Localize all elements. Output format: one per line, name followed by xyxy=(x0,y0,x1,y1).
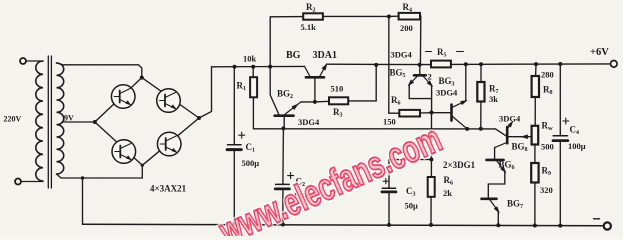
resistor R3 510 xyxy=(315,65,376,104)
wire bridge edge top-right xyxy=(142,78,199,118)
svg-text:150: 150 xyxy=(383,117,396,127)
node bridge bottom corner xyxy=(141,164,144,167)
svg-text:200: 200 xyxy=(400,23,413,33)
node R1 top xyxy=(251,65,255,69)
resistor R5 (series) xyxy=(431,61,451,68)
wire R2/R4 junction drop to R6 xyxy=(388,17,390,114)
svg-text:3k: 3k xyxy=(489,94,498,104)
svg-text:3DG4: 3DG4 xyxy=(391,50,413,60)
svg-text:3DG4: 3DG4 xyxy=(298,117,320,127)
node C1 tap xyxy=(233,65,237,69)
node R7 top xyxy=(479,62,483,66)
node C3 bottom xyxy=(387,223,391,227)
terminal output-bottom xyxy=(604,222,611,229)
node R2/R4 junction xyxy=(387,15,391,19)
terminal input-top xyxy=(20,58,26,64)
node C1 bottom xyxy=(232,222,236,226)
watermark www.elecfans.com xyxy=(213,118,448,240)
svg-text:10k: 10k xyxy=(243,53,257,63)
node R9 bottom xyxy=(533,224,537,228)
resistor R9 320 xyxy=(531,163,538,226)
wire BG2 emitter to node xyxy=(301,101,315,103)
node C4 top xyxy=(558,62,562,66)
capacitor C3 50u xyxy=(382,160,396,225)
node bridge left corner xyxy=(93,120,97,124)
transformer core xyxy=(47,56,49,188)
resistor R6 150 xyxy=(389,110,432,117)
node C3 branch xyxy=(429,158,433,162)
resistor R6 2k xyxy=(428,177,435,225)
svg-text:2k: 2k xyxy=(443,188,452,198)
transistor BG6 3DG1 xyxy=(487,160,509,198)
terminal +6V xyxy=(611,61,618,68)
node junction bottom-left xyxy=(81,176,84,179)
transistor D4 (bridge, 3AX21) xyxy=(157,132,181,156)
svg-text:510: 510 xyxy=(331,84,344,94)
node bridge top corner xyxy=(140,76,144,80)
wire bridge edge left-top xyxy=(95,78,142,122)
svg-text:4×3AX21: 4×3AX21 xyxy=(150,184,187,194)
wire rail to BG8 base xyxy=(496,129,507,136)
transistor BG3 3DG4 xyxy=(432,64,469,129)
wire to C3 xyxy=(389,159,431,161)
wire raw DC bus xyxy=(212,65,305,67)
capacitor C4 100u xyxy=(553,64,569,226)
label minus xyxy=(594,218,600,220)
transformer T1 secondary winding xyxy=(57,63,64,174)
node C2 bottom xyxy=(281,223,285,227)
wire R2 drop / BG2 collector xyxy=(270,17,279,114)
transistor BG8 3DG4 xyxy=(495,119,515,158)
svg-text:2×3DG1: 2×3DG1 xyxy=(443,160,476,170)
wire bridge output to bus xyxy=(199,67,212,118)
node BG3 emitter on rail xyxy=(465,127,469,131)
resistor R1 10k xyxy=(250,67,257,129)
wire secondary-top to bridge top corner xyxy=(57,63,142,78)
transistor BG5 3DG4 xyxy=(406,65,435,113)
node R4/BG5 xyxy=(418,63,422,67)
node R6 bottom xyxy=(429,223,433,227)
svg-text:3DA1: 3DA1 xyxy=(313,50,337,61)
resistor R2 5.1k xyxy=(270,13,389,19)
svg-text:2: 2 xyxy=(428,72,432,82)
capacitor C2 100u xyxy=(275,128,293,224)
wire bridge bottom corner drop xyxy=(141,165,143,178)
svg-text:50μ: 50μ xyxy=(405,200,419,210)
node bridge right corner xyxy=(197,116,201,120)
node divider top xyxy=(534,62,538,66)
svg-text:500: 500 xyxy=(541,142,554,152)
transistor D2 (bridge, 3AX21) xyxy=(157,89,181,113)
node BG2 base / C2 xyxy=(281,126,285,130)
potentiometer Rw 500 xyxy=(532,126,539,163)
wire primary-top lead xyxy=(26,60,43,62)
wire secondary-bottom xyxy=(57,174,143,178)
node C4 bottom xyxy=(558,224,562,228)
wire bridge edge right-bottom xyxy=(142,118,199,165)
svg-text:100μ: 100μ xyxy=(568,141,586,151)
node R3 rise xyxy=(374,63,378,67)
resistor R8 280 xyxy=(532,64,539,126)
node BG7 emitter on rail xyxy=(496,223,500,227)
node R7 bottom on rail xyxy=(479,127,483,131)
resistor R7 3k xyxy=(477,64,484,129)
svg-text:9V: 9V xyxy=(64,114,74,123)
transistor BG2 3DG4 xyxy=(275,102,301,129)
resistor R4 200 xyxy=(389,13,421,65)
wire secondary tap to bridge left corner xyxy=(64,121,95,123)
transistor D3 (bridge, 3AX21) xyxy=(112,140,136,164)
node BG4 base / R3 xyxy=(313,100,317,104)
svg-text:220V: 220V xyxy=(4,115,22,124)
svg-text:+6V: +6V xyxy=(590,47,609,58)
wire Rw wiper xyxy=(509,136,532,138)
label R5 xyxy=(426,51,432,53)
svg-text:500μ: 500μ xyxy=(242,158,260,168)
transistor BG7 3DG1 xyxy=(482,199,502,225)
wire ground drop to bottom rail xyxy=(82,178,84,224)
capacitor C1 500u xyxy=(227,67,245,225)
svg-text:320: 320 xyxy=(540,185,553,195)
transformer T1 primary winding xyxy=(36,61,43,181)
svg-text:3DG4: 3DG4 xyxy=(436,88,458,98)
node R2/BG2 tap xyxy=(268,65,272,69)
wire bridge edge bottom-left xyxy=(95,122,143,165)
wire primary-bottom lead xyxy=(21,181,43,183)
svg-text:280: 280 xyxy=(541,69,554,79)
transistor BG4 3DA1 xyxy=(305,62,330,102)
terminal input-bottom xyxy=(15,179,21,185)
svg-text:5.1k: 5.1k xyxy=(301,22,317,32)
wire regulated bus xyxy=(327,63,431,65)
svg-text:3DG4: 3DG4 xyxy=(499,113,521,123)
svg-text:BG: BG xyxy=(286,50,301,61)
transistor D1 (bridge, 3AX21) xyxy=(111,85,135,109)
node BG3 collector xyxy=(464,62,468,66)
wire mid rail xyxy=(253,128,495,130)
wire bottom rail xyxy=(83,224,603,226)
node emitter junction xyxy=(430,111,434,115)
wire emitter node down xyxy=(430,113,432,178)
